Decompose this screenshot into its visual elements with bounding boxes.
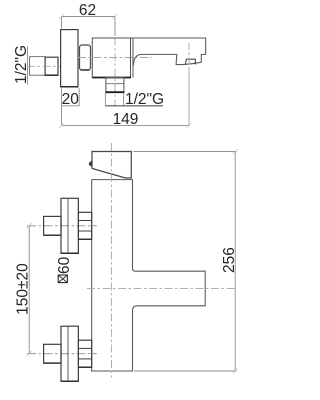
- dim 149 tick left: [59, 123, 64, 128]
- bottom connection flange: [61, 326, 78, 381]
- pipe nut: [45, 57, 58, 75]
- column centerline vertical: [110, 143, 112, 378]
- spout tip extension line down to 149 dim: [188, 68, 190, 126]
- column body with spout arm silhouette: [92, 180, 206, 371]
- bottom connection hex nut band lines: [78, 347, 91, 349]
- dim 20 line: [62, 105, 80, 107]
- dim 256 extension top (handle top): [134, 151, 237, 153]
- outlet nut thick bottom edge: [105, 91, 124, 93]
- wall pipe stub: [30, 57, 46, 76]
- faucet body: [92, 38, 130, 78]
- lever handle: [92, 152, 131, 179]
- outlet leader line under 1/2"G: [105, 105, 163, 107]
- inlet centerline: [27, 65, 61, 67]
- svg-text:149: 149: [113, 111, 139, 128]
- wall flange: [61, 30, 78, 87]
- dim 256 tick top: [233, 149, 238, 154]
- bottom connection hex nut: [78, 340, 91, 367]
- svg-text:60: 60: [56, 256, 73, 274]
- svg-text:1/2"G: 1/2"G: [125, 91, 164, 108]
- dim 149 line: [62, 124, 190, 126]
- dim 62 tick right: [113, 14, 118, 19]
- body bottom thick edge: [92, 77, 131, 79]
- dim 256 extension bottom (column bottom): [134, 370, 237, 372]
- dim 150±20 tick top: [27, 223, 32, 228]
- top connection hex nut band lines: [78, 220, 91, 222]
- dim 62 tick left: [59, 14, 64, 19]
- dim 20 extension right: [78, 88, 80, 106]
- dim 149 tick right: [187, 123, 192, 128]
- handshower outlet nut under body: [106, 78, 124, 93]
- top connection flange: [61, 198, 78, 253]
- bottom connection square nut: [44, 344, 61, 363]
- dim 150±20 line: [28, 226, 30, 354]
- bottom connection centerline: [27, 353, 97, 355]
- dim 256 line: [234, 152, 236, 372]
- underline of rotated 1/2"G label: [27, 46, 29, 85]
- body centerline vertical: [114, 22, 116, 106]
- dim 62 extension right: [114, 17, 116, 37]
- top connection centerline: [27, 225, 97, 227]
- dim 62 line: [62, 16, 116, 18]
- spout outline: [133, 38, 206, 66]
- spout tip centerline: [188, 43, 190, 68]
- body centerline horizontal: [78, 57, 152, 59]
- top connection hex nut: [78, 212, 91, 239]
- bottom connection flange inner line: [67, 326, 69, 381]
- handle knob tip: [89, 161, 92, 167]
- dim 62 extension left: [61, 17, 63, 29]
- spout joint line: [132, 38, 134, 78]
- box-x symbol of square-60 label: [58, 275, 67, 283]
- arm centerline horizontal: [87, 287, 237, 289]
- svg-text:20: 20: [62, 91, 80, 108]
- svg-text:62: 62: [79, 2, 96, 19]
- svg-text:256: 256: [221, 247, 238, 273]
- top connection flange inner line: [67, 198, 69, 253]
- dim 20 extension left (continues down for 149): [61, 88, 63, 125]
- dim 256 tick bottom: [233, 369, 238, 374]
- outlet nut divider: [106, 83, 124, 85]
- top connection square nut: [44, 216, 61, 235]
- dim 150±20 tick bottom: [27, 351, 32, 356]
- aerator nub on spout tip: [185, 59, 195, 65]
- svg-text:150±20: 150±20: [15, 263, 32, 315]
- connector between flange and body: [80, 45, 91, 70]
- outlet leader extensions: [104, 93, 106, 106]
- spout top edge from body: [131, 37, 134, 39]
